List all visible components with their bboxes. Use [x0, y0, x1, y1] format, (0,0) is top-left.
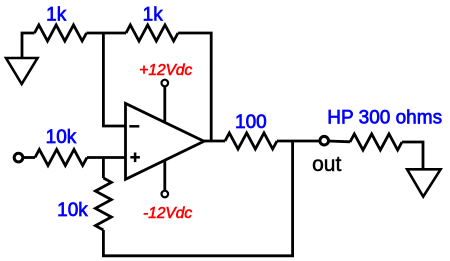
svg-text:1k: 1k	[143, 5, 164, 26]
svg-text:-12Vdc: -12Vdc	[143, 205, 192, 222]
svg-text:10k: 10k	[57, 200, 88, 221]
svg-text:+12Vdc: +12Vdc	[139, 62, 192, 79]
svg-text:out: out	[312, 153, 341, 176]
svg-text:100: 100	[235, 112, 267, 133]
svg-text:10k: 10k	[46, 127, 77, 148]
svg-text:HP 300 ohms: HP 300 ohms	[327, 108, 442, 129]
svg-text:1k: 1k	[46, 5, 67, 26]
